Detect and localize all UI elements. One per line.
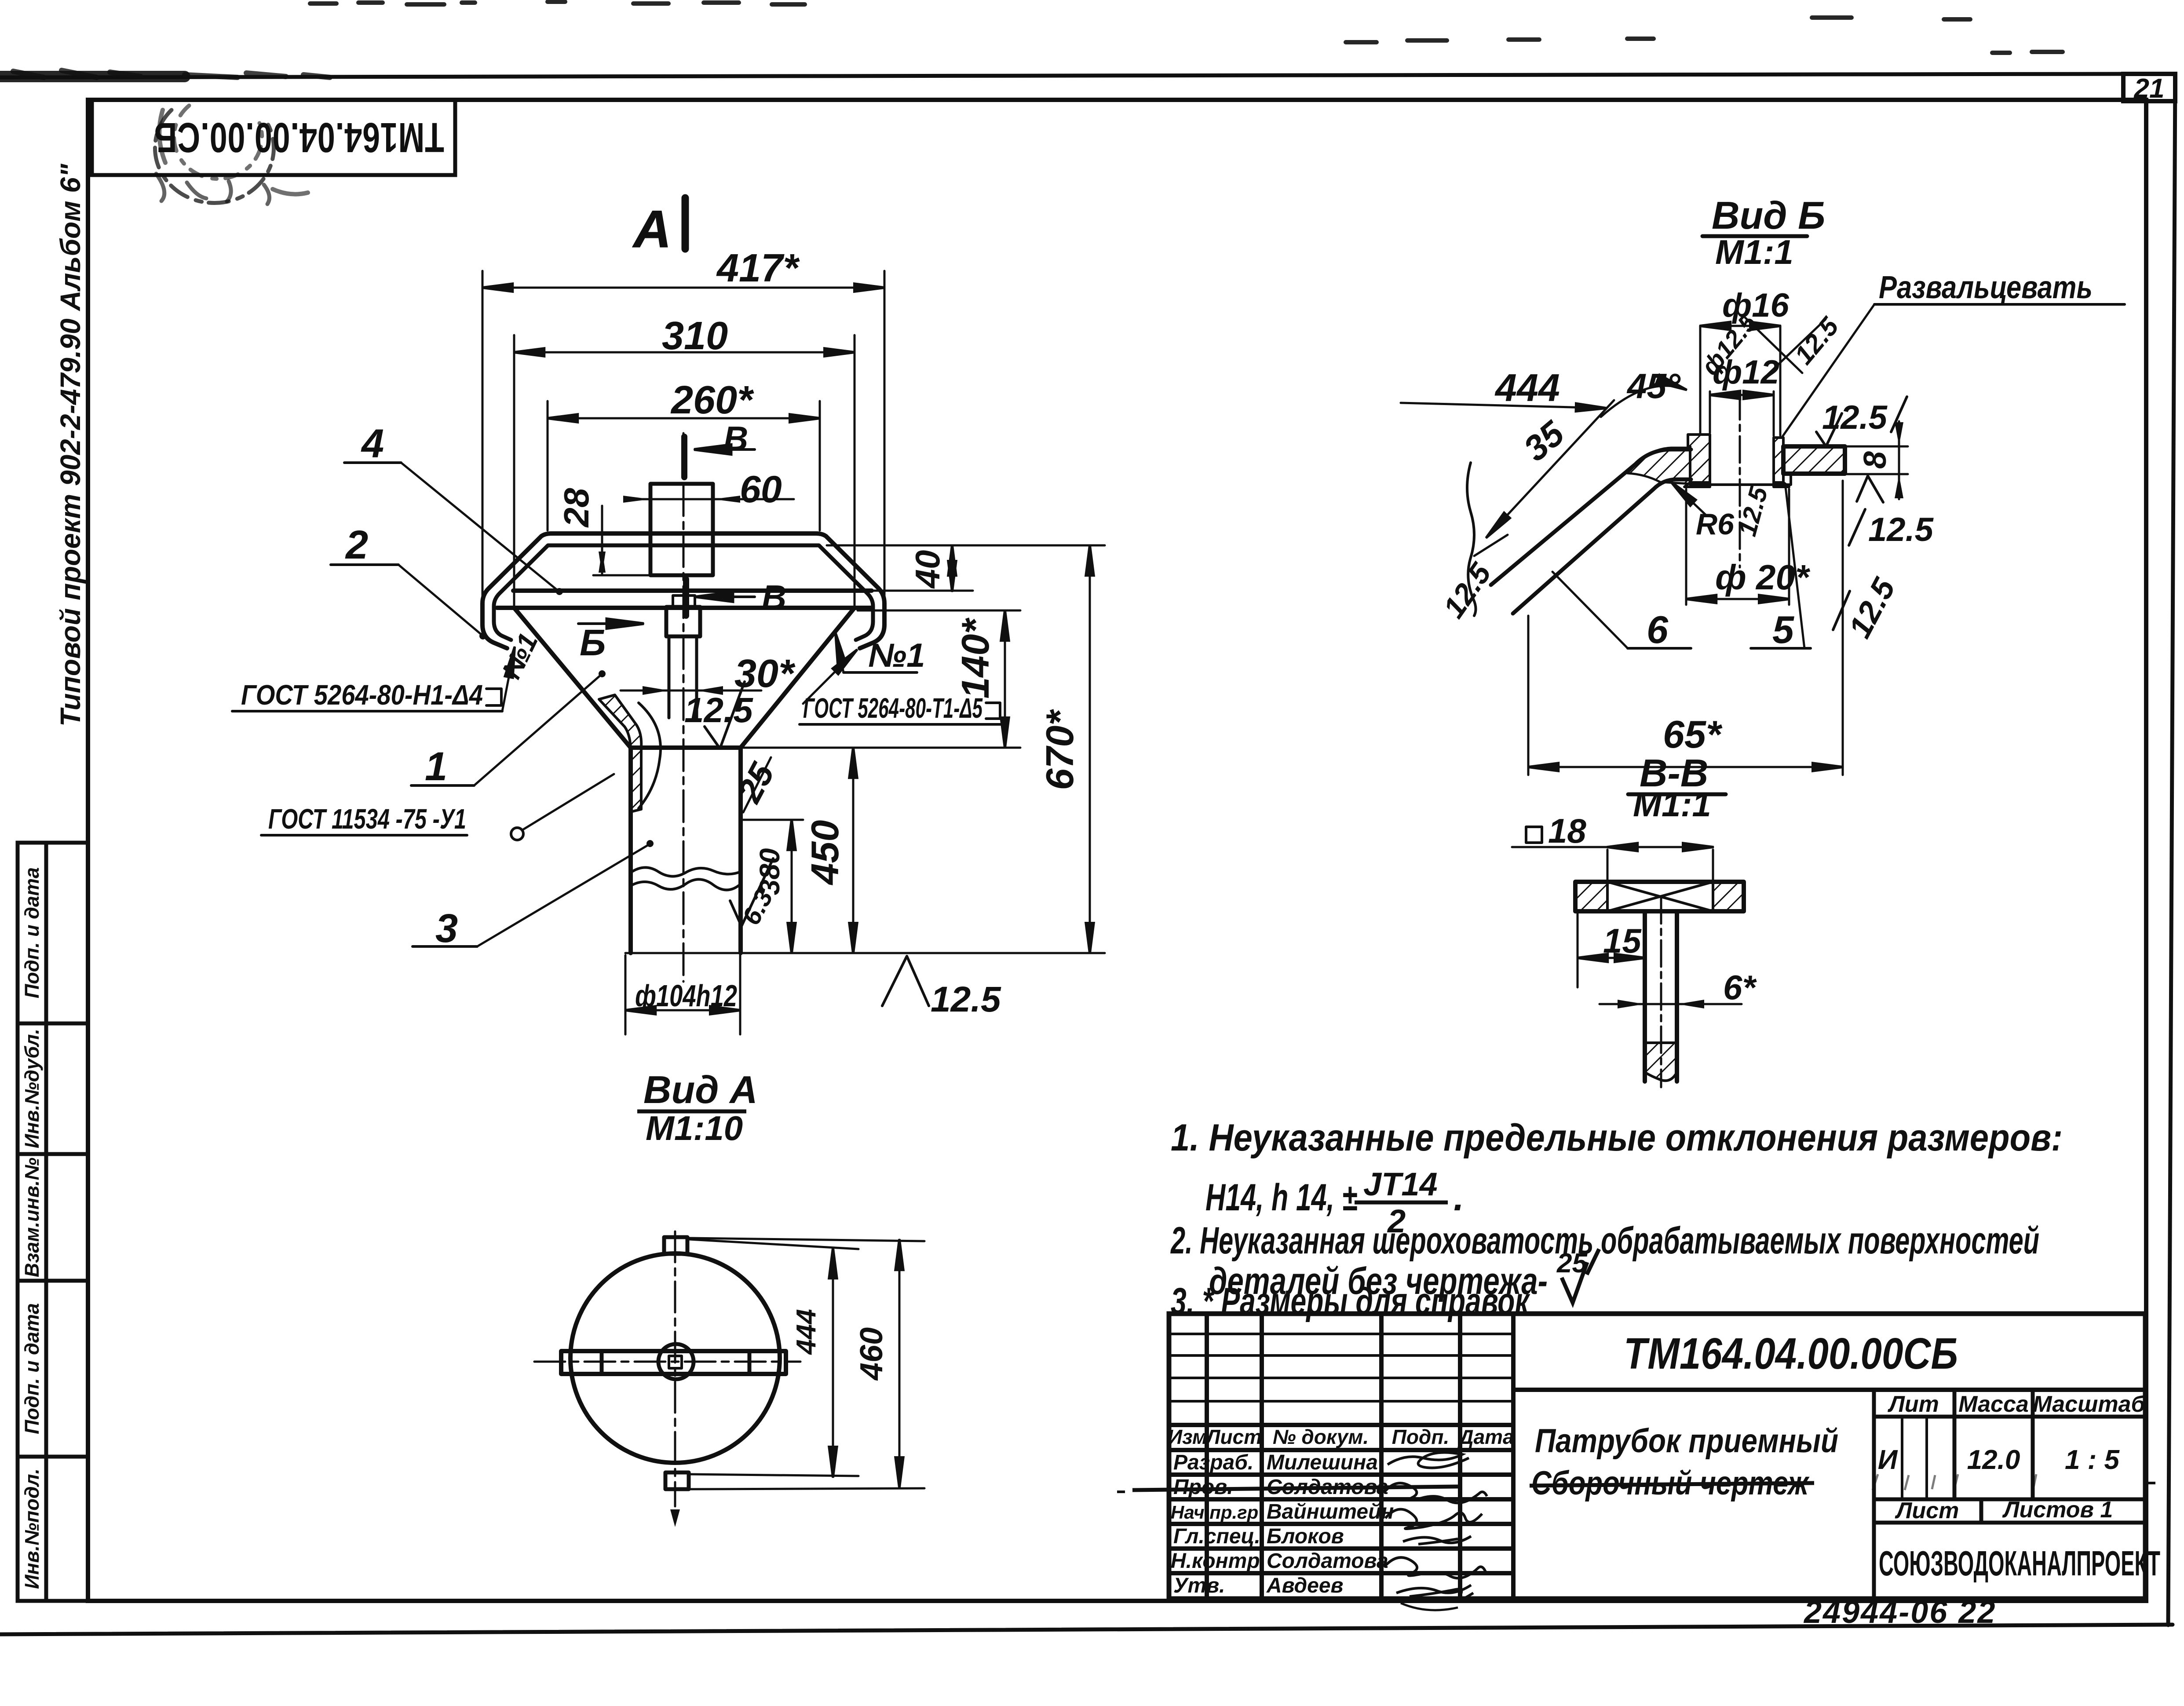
dimension 417*	[482, 271, 884, 596]
dimension f16	[1700, 326, 1780, 435]
cone right wall	[741, 608, 855, 748]
svg-text:444: 444	[791, 1309, 822, 1355]
callout 6	[1552, 572, 1691, 648]
svg-text:А: А	[632, 200, 672, 259]
svg-text:670*: 670*	[1038, 709, 1081, 790]
signature rows	[1171, 1451, 1394, 1597]
svg-text:ГОСТ 11534 -75 -У1: ГОСТ 11534 -75 -У1	[268, 803, 466, 835]
bracket plate	[666, 607, 700, 636]
svg-text:Подп.: Подп.	[1392, 1425, 1450, 1448]
view arrow Б	[578, 622, 643, 625]
svg-text:№ докум.: № докум.	[1273, 1425, 1369, 1448]
svg-text:И: И	[1878, 1445, 1898, 1475]
weld label GOST5264-80-N1 leader	[232, 647, 515, 711]
pipe left wall	[628, 748, 633, 953]
dimension 670*	[1089, 545, 1091, 953]
crossbar	[561, 1351, 786, 1374]
left margin stamp strip	[18, 843, 88, 1601]
svg-text:Типовой проект 902-2-479.90: Типовой проект 902-2-479.90 Альбом 6"	[55, 164, 86, 727]
weld label GOST5264-80-T1 leader	[800, 650, 1001, 724]
svg-text:45°: 45°	[1626, 366, 1681, 405]
svg-text:Развальцевать: Развальцевать	[1879, 270, 2093, 305]
dimension 15	[1578, 913, 1645, 987]
svg-text:1: 1	[425, 744, 447, 789]
weld collar break arc	[639, 703, 661, 808]
svg-text:28: 28	[557, 488, 596, 528]
bottom arrowhead on center line	[670, 1509, 680, 1527]
revision area horizontals	[1169, 1334, 1513, 1401]
bent plate band lower edge	[1513, 479, 1691, 614]
page number box 21	[2123, 74, 2175, 101]
svg-text:Листов 1: Листов 1	[2002, 1497, 2113, 1523]
svg-text:ф104h12: ф104h12	[635, 979, 737, 1013]
disc circle	[570, 1253, 780, 1463]
roughness 12.5 check upper right	[1816, 413, 1842, 446]
svg-text:Инв.№подл.: Инв.№подл.	[21, 1469, 43, 1589]
roughness mark in note 2	[1562, 1249, 1599, 1303]
roughness 12.5 at 65 ext	[1833, 591, 1850, 630]
svg-text:Вайнштейн: Вайнштейн	[1267, 1500, 1394, 1523]
svg-text:ТМ164.04.00.00.СБ: ТМ164.04.00.00.СБ	[154, 114, 444, 161]
dimension 30*	[621, 686, 761, 695]
top tab	[664, 1237, 687, 1254]
svg-text:2. Неуказанная шероховатость: 2. Неуказанная шероховатость обрабатывае…	[1170, 1220, 2039, 1262]
roughness 12.5 check lower	[1857, 476, 1883, 502]
svg-text:444: 444	[1494, 366, 1560, 409]
header + signature rows	[1169, 1425, 1513, 1573]
sleeve center line	[1739, 393, 1741, 567]
view title underline	[1702, 234, 1807, 238]
lid inner surface extension line	[827, 544, 1105, 547]
plate right strip	[1783, 446, 1845, 474]
svg-text:Лит: Лит	[1887, 1392, 1939, 1417]
roughness 6.3 mark	[730, 858, 773, 926]
35 end tick	[1474, 535, 1508, 556]
bar	[1643, 911, 1647, 1081]
hub circle	[658, 1344, 694, 1379]
vertical center line	[674, 1231, 676, 1506]
lid inner right curl	[856, 621, 873, 640]
scan dashes at very top	[310, 2, 2063, 53]
svg-text:1 : 5: 1 : 5	[2065, 1445, 2120, 1475]
35 dimension line along band	[1486, 400, 1614, 537]
outer bottom scan line	[0, 1625, 2173, 1634]
svg-text:Лист: Лист	[1205, 1425, 1262, 1448]
svg-text:В: В	[723, 419, 748, 458]
elbow hatched section	[1627, 448, 1690, 484]
svg-text:Изм: Изм	[1168, 1425, 1207, 1448]
svg-text:Милешина: Милешина	[1267, 1451, 1378, 1474]
svg-text:Вид А: Вид А	[643, 1068, 758, 1111]
signatures scribbles	[1385, 1453, 1487, 1611]
svg-text:М1:10: М1:10	[646, 1109, 743, 1147]
svg-text:24944-06 22: 24944-06 22	[1803, 1595, 1996, 1630]
top-left document number box	[92, 100, 455, 175]
svg-text:ГОСТ 5264-80-Н1-Δ4: ГОСТ 5264-80-Н1-Δ4	[241, 679, 483, 711]
title block outer border	[1169, 1314, 2145, 1599]
svg-text:Инв.№дубл.: Инв.№дубл.	[21, 1029, 43, 1148]
svg-text:12.0: 12.0	[1967, 1445, 2020, 1475]
bottom reference line	[625, 952, 1105, 954]
svg-text:Подп. и дата: Подп. и дата	[21, 867, 43, 998]
svg-text:ТМ164.04.00.00СБ: ТМ164.04.00.00СБ	[1624, 1329, 1958, 1378]
view arrow B lower	[683, 579, 689, 616]
strikethrough on Sborochny chertezh	[1530, 1483, 1814, 1486]
callout 2	[331, 565, 486, 639]
svg-text:12.5: 12.5	[931, 979, 1001, 1019]
dimension 65*	[1528, 481, 1843, 775]
GOST11534 label leader	[261, 774, 614, 840]
cone bottom / pipe mouth	[631, 745, 741, 750]
bent plate band upper edge	[1491, 449, 1691, 585]
dimension 140*	[743, 610, 1020, 748]
dimension 460	[690, 1238, 924, 1489]
sleeve left lip and wall	[1688, 435, 1710, 482]
svg-text:12.5: 12.5	[1822, 399, 1888, 436]
roughness 12.5 at cone bottom	[705, 682, 745, 749]
bottom tab	[665, 1472, 689, 1489]
dimension f12	[1710, 391, 1774, 436]
sleeve right flare	[1774, 482, 1789, 487]
dimension 260*	[548, 401, 820, 530]
svg-text:6*: 6*	[1723, 968, 1757, 1007]
rod below bracket	[669, 636, 697, 718]
svg-text:21: 21	[2134, 73, 2165, 104]
N1 right label leader	[836, 633, 917, 672]
lid cap right hook curl	[860, 625, 884, 648]
dimension 18	[1512, 847, 1713, 880]
designation cell bottom line	[1513, 1388, 2145, 1392]
svg-text:450: 450	[803, 820, 847, 886]
svg-text:310: 310	[662, 314, 728, 358]
svg-text:JT14: JT14	[1363, 1166, 1438, 1202]
dimension 380	[743, 820, 803, 953]
lid cap outer profile	[482, 533, 884, 625]
pipe break wavy lines	[631, 867, 741, 876]
svg-text:Патрубок приемный: Патрубок приемный	[1535, 1422, 1838, 1460]
cone left wall	[514, 608, 631, 748]
svg-text:Гл.спец.: Гл.спец.	[1173, 1525, 1260, 1548]
svg-text:40: 40	[908, 550, 947, 589]
svg-text:460: 460	[854, 1327, 889, 1381]
strikethrough on Prov row	[1132, 1487, 1458, 1490]
svg-text:1. Неуказанные предельные от: 1. Неуказанные предельные отклонения раз…	[1171, 1117, 2063, 1159]
svg-text:12.5: 12.5	[1868, 511, 1934, 548]
svg-text:3. * Размеры для справок: 3. * Размеры для справок	[1171, 1280, 1530, 1322]
weld 12.5 mark on bottom line	[882, 956, 929, 1006]
lower-left ticks of lit table (scan marks)	[1873, 1474, 2036, 1490]
svg-text:6: 6	[1647, 608, 1669, 651]
svg-text:№1: №1	[868, 637, 925, 674]
svg-text:М1:1: М1:1	[1715, 233, 1793, 271]
callout 1	[411, 670, 606, 785]
dimension 28	[593, 506, 653, 575]
header row	[1168, 1425, 1514, 1448]
inner disc line	[513, 588, 872, 593]
svg-text:260*: 260*	[670, 378, 754, 422]
horizontal center line	[534, 1361, 800, 1363]
svg-text:8: 8	[1858, 451, 1893, 469]
svg-text:Нач.пр.гр: Нач.пр.гр	[1171, 1502, 1258, 1523]
svg-text:М1:1: М1:1	[1633, 785, 1711, 824]
svg-text:Лист: Лист	[1895, 1498, 1959, 1523]
callout 3	[413, 840, 654, 946]
title underline	[1628, 793, 1726, 796]
sleeve right wall	[1774, 438, 1783, 482]
dimension 40	[951, 545, 953, 591]
svg-text:18: 18	[1548, 811, 1586, 850]
svg-text:12.5: 12.5	[684, 690, 753, 730]
R6 leader	[1671, 482, 1706, 515]
scan smudge top-left	[0, 71, 185, 82]
left table verticals	[1207, 1314, 1513, 1599]
444 reference line with arrow	[1401, 403, 1606, 408]
round stamp noise	[155, 110, 274, 203]
svg-text:140*: 140*	[953, 617, 997, 699]
svg-text:Масса: Масса	[1958, 1392, 2029, 1417]
razvaltsevat label underline and leader	[1874, 303, 2125, 306]
sheet top scan edge line	[0, 74, 2123, 77]
45deg arc	[1601, 386, 1686, 417]
funnel rim	[497, 606, 871, 610]
main view texts	[241, 246, 1081, 1147]
left strip labels	[21, 867, 43, 1589]
svg-text:417*: 417*	[716, 246, 800, 290]
svg-text:.: .	[1454, 1176, 1464, 1219]
svg-text:Взам.инв.№: Взам.инв.№	[21, 1158, 43, 1277]
svg-text:15: 15	[1603, 921, 1642, 960]
boss block through lid	[650, 484, 713, 575]
svg-text:Н.контр.: Н.контр.	[1171, 1549, 1266, 1573]
svg-text:Авдеев: Авдеев	[1266, 1574, 1344, 1597]
sleeve left flare	[1684, 482, 1710, 487]
lit/massa/masshtab table	[1874, 1390, 2145, 1599]
dimension f104h12	[625, 955, 740, 1034]
dimension f20*	[1686, 489, 1789, 605]
svg-text:Масштаб: Масштаб	[2033, 1392, 2146, 1417]
center axis	[683, 433, 685, 982]
svg-text:Солдатова: Солдатова	[1267, 1549, 1388, 1573]
view arrow B upper	[681, 437, 687, 477]
dimension 444	[690, 1239, 858, 1477]
outer right scan line	[2168, 75, 2175, 1625]
svg-text:Б: Б	[580, 622, 606, 663]
svg-text:60: 60	[740, 468, 782, 511]
fraction bar	[1355, 1201, 1448, 1205]
dimension 450	[852, 748, 855, 953]
dimension 6*	[1600, 1000, 1742, 1008]
svg-text:Подп. и дата: Подп. и дата	[21, 1303, 43, 1434]
svg-text:3: 3	[435, 906, 458, 951]
pipe right wall	[738, 748, 743, 953]
rod cap above bracket	[673, 595, 695, 607]
lid cap inner profile	[494, 545, 873, 621]
svg-text:5: 5	[1772, 608, 1794, 651]
svg-text:Н14, h 14, ±: Н14, h 14, ±	[1205, 1176, 1357, 1219]
dimension 60	[623, 496, 794, 503]
svg-text:СОЮЗВОДОКАНАЛПРОЕКТ: СОЮЗВОДОКАНАЛПРОЕКТ	[1879, 1544, 2160, 1583]
center square	[669, 1356, 682, 1368]
svg-text:ф 20*: ф 20*	[1715, 558, 1811, 597]
svg-text:В: В	[762, 578, 786, 617]
svg-text:4: 4	[361, 421, 384, 466]
chamfer 25 mark	[743, 757, 771, 812]
svg-text:Блоков: Блоков	[1267, 1525, 1344, 1548]
svg-text:Разраб.: Разраб.	[1173, 1451, 1253, 1474]
band break wavy line	[1467, 463, 1476, 616]
svg-text:Дата: Дата	[1457, 1425, 1514, 1448]
svg-text:Утв.: Утв.	[1173, 1574, 1225, 1597]
flange plate	[1575, 882, 1744, 911]
svg-text:65*: 65*	[1663, 712, 1723, 756]
svg-text:R6: R6	[1696, 508, 1735, 541]
svg-text:30*: 30*	[734, 652, 796, 696]
square symbol	[1526, 827, 1542, 843]
dimension 310	[514, 335, 855, 606]
callout 5	[1751, 487, 1811, 648]
dimension 8	[1847, 421, 1908, 499]
svg-text:2: 2	[345, 522, 368, 567]
lid cap left hook curl	[482, 625, 507, 648]
title block texts	[1168, 1329, 2160, 1597]
svg-text:ГОСТ 5264-80-Т1-Δ5: ГОСТ 5264-80-Т1-Δ5	[803, 692, 983, 724]
lid inner left curl	[494, 621, 511, 640]
callout 4	[344, 463, 563, 595]
roughness cross lines	[1745, 318, 1802, 373]
weld collar hatched strip	[599, 695, 641, 812]
svg-text:Вид Б: Вид Б	[1712, 194, 1825, 237]
lit table	[1887, 1392, 2146, 1417]
bottom edge under sleeve	[1690, 475, 1791, 485]
